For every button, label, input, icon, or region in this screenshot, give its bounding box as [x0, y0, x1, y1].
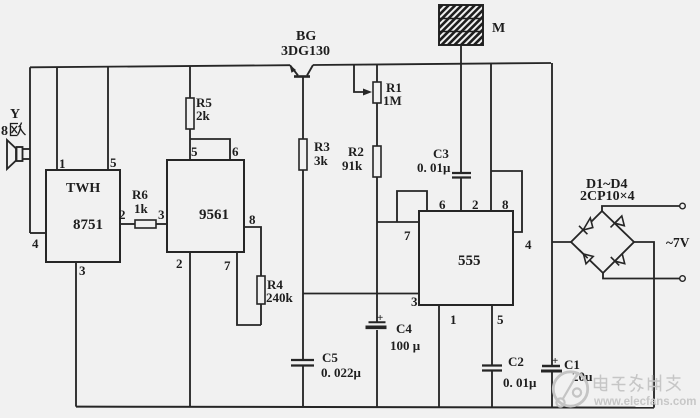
motor inner lines — [439, 19, 483, 32]
svg-text:6: 6 — [439, 197, 446, 212]
wire pin2 TWH to R6 — [120, 223, 135, 225]
svg-text:5: 5 — [497, 312, 504, 327]
svg-text:2: 2 — [119, 207, 126, 222]
svg-text:2: 2 — [176, 256, 183, 271]
wire bottom rail — [76, 407, 654, 408]
svg-text:1M: 1M — [383, 93, 402, 108]
svg-text:5: 5 — [191, 144, 198, 159]
svg-text:4: 4 — [525, 237, 532, 252]
resistor R5 — [186, 98, 194, 129]
svg-text:9561: 9561 — [199, 207, 229, 223]
resistor R2 — [373, 146, 381, 177]
wire C3 to pin2 555 — [460, 178, 462, 212]
svg-text:TWH: TWH — [66, 181, 100, 196]
wire pin2 9561 to bottom rail — [189, 252, 191, 407]
potentiometer R1 body — [373, 82, 381, 103]
svg-text:6: 6 — [232, 144, 239, 159]
svg-text:Y: Y — [10, 107, 20, 122]
svg-text:2: 2 — [472, 197, 479, 212]
motor M — [439, 5, 483, 45]
capacitor C4 electrolytic — [366, 322, 387, 327]
watermark logo ring — [553, 372, 587, 407]
wire node to pin3 555 — [303, 293, 419, 295]
svg-text:1: 1 — [59, 156, 66, 171]
diode D2 top-right — [611, 216, 625, 228]
wire R5 top — [189, 66, 191, 98]
wire R4 bottom — [260, 304, 262, 325]
wire R1 to R2 — [376, 103, 378, 146]
svg-text:0. 01μ: 0. 01μ — [417, 160, 451, 175]
wire R3 to node — [302, 170, 304, 360]
resistor R3 — [299, 139, 307, 170]
svg-text:240k: 240k — [266, 290, 294, 305]
wire top rail right segment — [313, 63, 551, 65]
wire left rail — [29, 67, 31, 233]
wire pin5 555 — [491, 305, 493, 366]
wire C5 to bottom rail — [302, 366, 304, 408]
svg-text:8: 8 — [249, 212, 256, 227]
resistor R4 — [257, 276, 265, 304]
wire bridge top AC terminal — [602, 206, 680, 211]
wire rail to R1 — [376, 65, 378, 83]
terminal circle bottom — [680, 276, 686, 282]
wire pin1 TWH — [56, 67, 58, 170]
watermark text dianzifashaoyou — [595, 374, 681, 392]
capacitor C3 — [452, 173, 471, 178]
wire R6 to 9561 pin3 — [156, 223, 167, 225]
wire pin8 9561 stub — [244, 227, 261, 276]
resistor R6 — [135, 220, 156, 228]
wire C2 to bottom rail — [491, 371, 493, 408]
svg-text:C4: C4 — [396, 321, 412, 336]
wire R2 to C4 — [376, 177, 378, 322]
capacitor C1 electrolytic — [541, 366, 562, 371]
wire top rail left segment — [30, 65, 290, 67]
svg-text:8: 8 — [1, 124, 8, 139]
svg-text:4: 4 — [32, 236, 39, 251]
svg-text:100 μ: 100 μ — [390, 338, 421, 353]
diode D3 bottom-left — [579, 250, 593, 264]
wire loop pin7 to pin6 555 — [397, 191, 427, 222]
wire pin4 TWH8751 — [30, 232, 46, 234]
wire rail to C3 — [460, 64, 462, 173]
speaker Y — [7, 140, 30, 169]
svg-text:2CP10×4: 2CP10×4 — [580, 189, 635, 204]
IC U1 TWH8751 box — [46, 170, 120, 262]
svg-text:C5: C5 — [322, 350, 338, 365]
svg-text:555: 555 — [458, 253, 481, 269]
svg-text:91k: 91k — [342, 158, 363, 173]
svg-text:R2: R2 — [348, 144, 364, 159]
svg-text:C2: C2 — [508, 354, 524, 369]
svg-text:BG: BG — [296, 29, 316, 44]
svg-text:1k: 1k — [134, 201, 149, 216]
svg-text:8: 8 — [502, 197, 509, 212]
wire R5 to pin5 — [189, 129, 191, 160]
motor hatch — [400, 5, 528, 48]
wire C1 to bottom rail — [551, 371, 553, 407]
wire loop pin5 to pin6 — [190, 139, 230, 160]
svg-text:M: M — [492, 21, 505, 36]
svg-text:1: 1 — [450, 312, 457, 327]
svg-text:3DG130: 3DG130 — [281, 44, 330, 59]
svg-text:0. 022μ: 0. 022μ — [321, 365, 362, 380]
IC 9561 box — [167, 160, 244, 252]
svg-text:www.elecfans.com: www.elecfans.com — [593, 396, 696, 408]
bridge rectifier D1-D4 diamond — [571, 211, 634, 273]
wire pin8 to pin4 jog — [491, 171, 522, 232]
wire pin3 TWH — [75, 262, 77, 407]
diode D1 top-left — [579, 218, 593, 234]
svg-text:0. 01μ: 0. 01μ — [503, 375, 537, 390]
svg-text:3: 3 — [411, 294, 418, 309]
svg-text:3: 3 — [79, 263, 86, 278]
svg-text:C3: C3 — [433, 146, 449, 161]
svg-text:5: 5 — [110, 155, 117, 170]
wire C4 to bottom rail — [376, 330, 378, 407]
wire pin7 9561 — [237, 252, 261, 325]
wire pin7 node 555 — [377, 221, 419, 223]
svg-text:R6: R6 — [132, 187, 148, 202]
svg-text:+: + — [552, 355, 558, 367]
potentiometer R1 wiper — [354, 65, 364, 92]
wire rail to bridge left vertex — [552, 241, 571, 243]
transistor Q1 BG 3DG130 — [290, 65, 313, 98]
R1 wiper arrowhead — [363, 89, 372, 96]
IC 555 box — [419, 211, 513, 305]
svg-text:8751: 8751 — [73, 217, 103, 233]
svg-text:7: 7 — [404, 228, 411, 243]
capacitor C5 — [291, 360, 314, 366]
svg-text:3: 3 — [158, 207, 165, 222]
svg-text:~7V: ~7V — [666, 235, 690, 250]
wire bridge right vertex down — [634, 242, 654, 408]
wire right rail — [551, 63, 553, 366]
capacitor C2 — [482, 366, 502, 371]
wire pin1 555 — [438, 305, 440, 407]
svg-text:7: 7 — [224, 258, 231, 273]
wire pin5 TWH — [107, 67, 109, 170]
wire base to R3 — [302, 98, 304, 139]
wire bridge bottom AC terminal — [603, 273, 680, 279]
terminal circle top — [680, 203, 686, 209]
svg-text:R3: R3 — [314, 139, 330, 154]
label 8欧 — [1, 123, 26, 140]
svg-text:3k: 3k — [314, 153, 329, 168]
transistor emitter arrowhead — [290, 65, 297, 73]
diode D4 bottom-right — [611, 254, 625, 266]
svg-text:2k: 2k — [196, 108, 211, 123]
svg-text:+: + — [377, 312, 383, 324]
wire motor to rail — [460, 45, 462, 64]
wire pin8 555 — [490, 64, 492, 211]
